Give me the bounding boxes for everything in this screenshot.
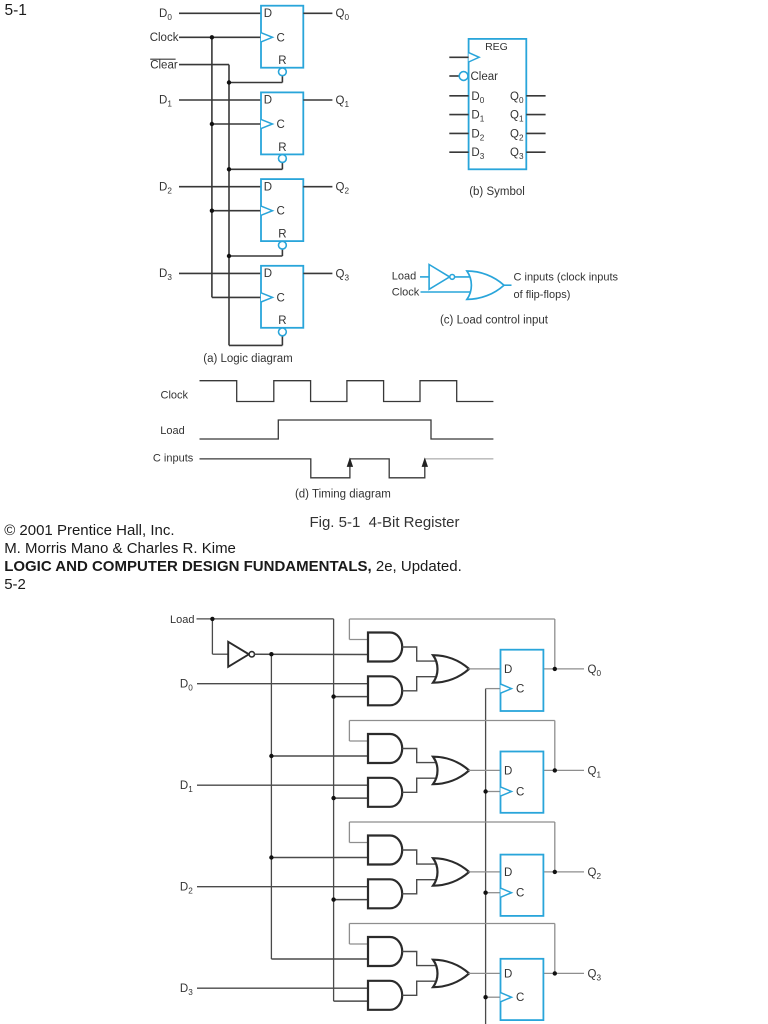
svg-text:Load: Load bbox=[170, 614, 194, 626]
svg-text:C: C bbox=[277, 292, 285, 304]
svg-text:C inputs (clock inputs: C inputs (clock inputs bbox=[514, 271, 619, 283]
svg-text:(a) Logic diagram: (a) Logic diagram bbox=[203, 353, 292, 365]
svg-text:D: D bbox=[264, 95, 272, 107]
svg-text:D: D bbox=[504, 664, 512, 676]
svg-text:D: D bbox=[264, 8, 272, 20]
svg-text:D: D bbox=[504, 765, 512, 777]
svg-text:Clear: Clear bbox=[471, 71, 499, 83]
svg-text:R: R bbox=[278, 142, 286, 154]
svg-text:D: D bbox=[264, 181, 272, 193]
svg-text:Load: Load bbox=[392, 270, 416, 282]
svg-text:C: C bbox=[277, 32, 285, 44]
svg-text:Clock: Clock bbox=[150, 32, 179, 44]
svg-text:R: R bbox=[278, 315, 286, 327]
svg-text:C: C bbox=[516, 888, 524, 900]
svg-text:C: C bbox=[277, 119, 285, 131]
svg-text:REG: REG bbox=[485, 41, 508, 53]
svg-text:D: D bbox=[504, 867, 512, 879]
svg-text:D: D bbox=[264, 268, 272, 280]
svg-text:C: C bbox=[516, 787, 524, 799]
svg-text:R: R bbox=[278, 55, 286, 67]
svg-text:(b) Symbol: (b) Symbol bbox=[469, 186, 525, 198]
svg-text:of flip-flops): of flip-flops) bbox=[514, 289, 571, 301]
svg-text:5-1: 5-1 bbox=[5, 2, 27, 19]
svg-text:C: C bbox=[516, 684, 524, 696]
svg-text:C: C bbox=[516, 992, 524, 1004]
svg-text:Load: Load bbox=[160, 425, 184, 437]
svg-text:C: C bbox=[277, 206, 285, 218]
svg-text:(d) Timing diagram: (d) Timing diagram bbox=[295, 489, 391, 501]
svg-text:© 2001 Prentice Hall, Inc.: © 2001 Prentice Hall, Inc. bbox=[4, 522, 174, 539]
svg-text:5-2: 5-2 bbox=[4, 576, 26, 593]
svg-text:Clock: Clock bbox=[392, 287, 420, 299]
svg-text:Clear: Clear bbox=[150, 59, 178, 71]
svg-text:(c) Load control input: (c) Load control input bbox=[440, 315, 549, 327]
svg-text:R: R bbox=[278, 229, 286, 241]
svg-text:M. Morris Mano & Charles R. Ki: M. Morris Mano & Charles R. Kime bbox=[4, 540, 236, 557]
svg-text:D: D bbox=[504, 968, 512, 980]
svg-text:LOGIC AND COMPUTER DESIGN FUND: LOGIC AND COMPUTER DESIGN FUNDAMENTALS, … bbox=[4, 558, 462, 575]
svg-text:Clock: Clock bbox=[161, 389, 189, 401]
svg-text:C inputs: C inputs bbox=[153, 452, 194, 464]
svg-text:Fig. 5-1 4-Bit Register: Fig. 5-1 4-Bit Register bbox=[309, 514, 459, 531]
